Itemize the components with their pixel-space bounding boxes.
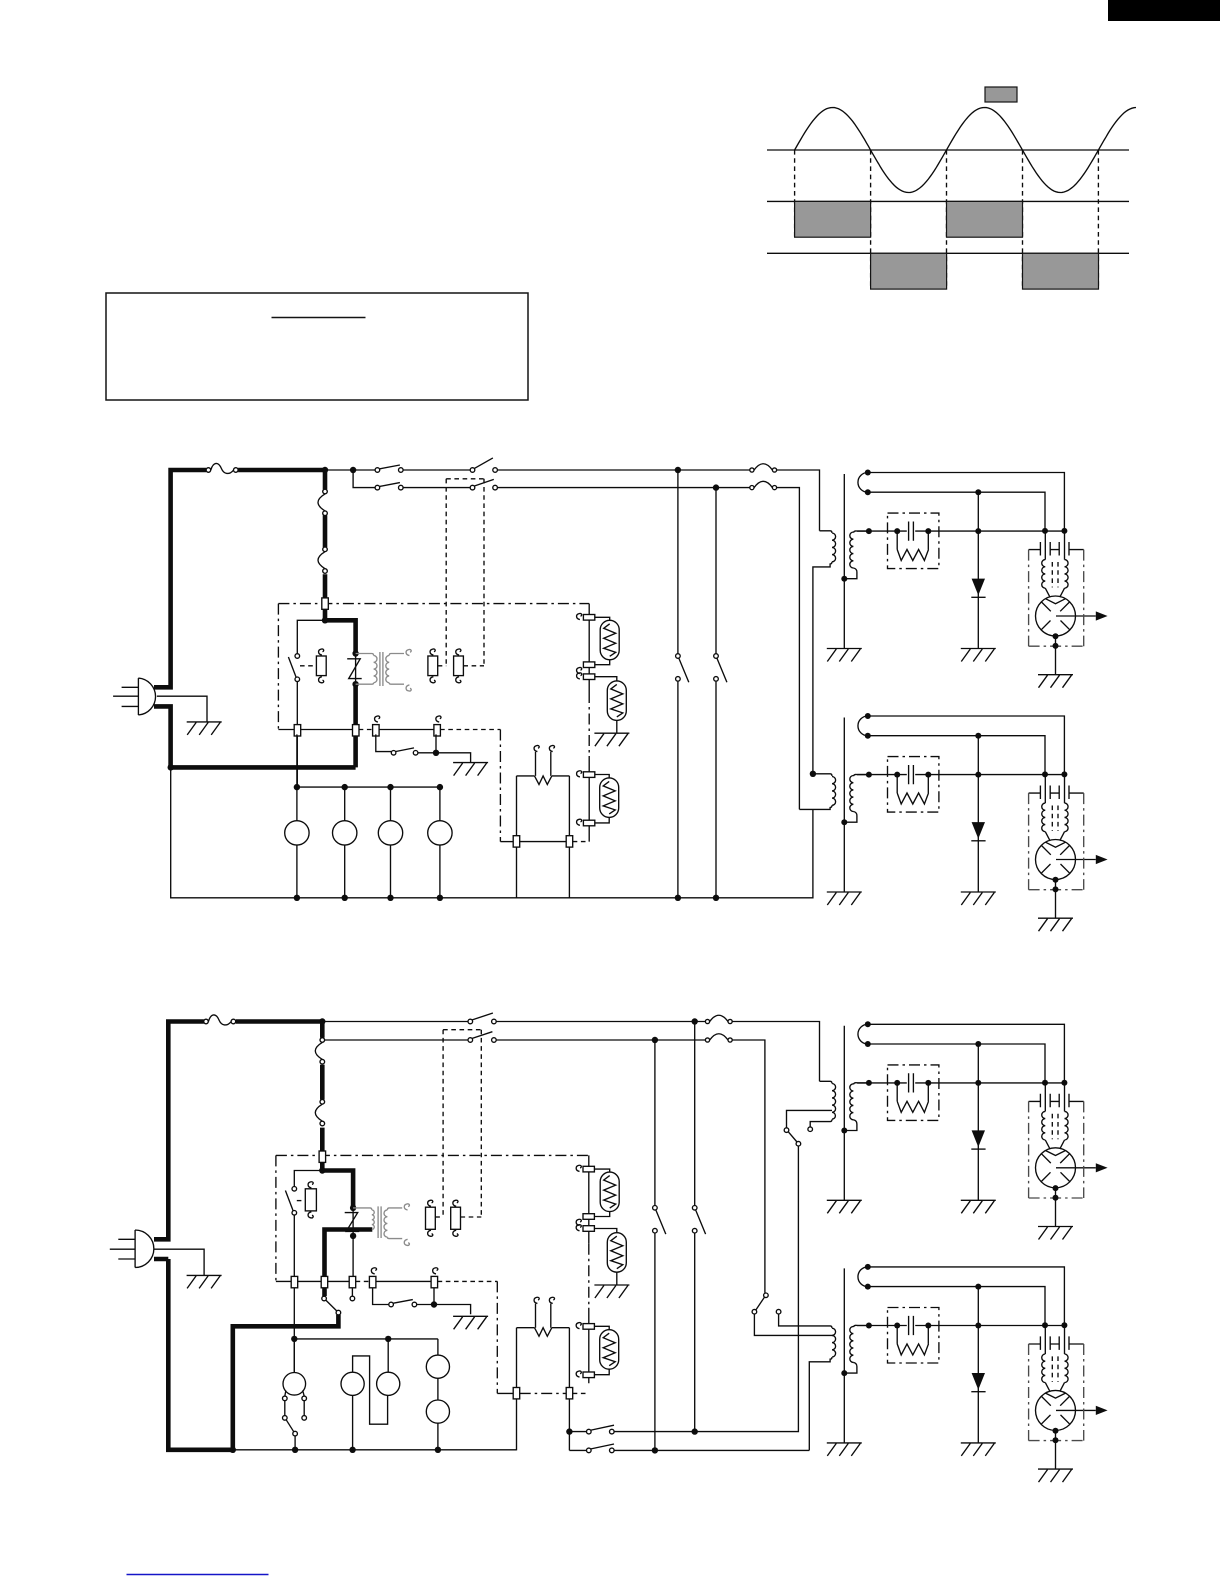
wire: plug earth pin — [154, 1249, 204, 1275]
wire: membrane switch branch — [376, 734, 471, 762]
wire: neutral bottom rail thick — [154, 1259, 233, 1450]
control box boundary dash-dot — [278, 604, 589, 730]
switch: door interlock rail1 (open) — [470, 468, 475, 473]
wire: motor bus — [294, 1338, 438, 1340]
thermal fuse rail2 — [750, 481, 777, 489]
wire: lamp feed column A — [677, 470, 679, 898]
motor M2 — [333, 821, 357, 845]
lamp L2 — [607, 1233, 626, 1273]
ground: membrane circuit — [453, 1316, 488, 1329]
motor M2 and M3 series link — [353, 1339, 389, 1450]
lamp L3 leads — [594, 1326, 609, 1374]
ground: oven lamp — [594, 733, 629, 746]
relay boundary dashed box — [446, 479, 484, 666]
transformer LVT core — [380, 652, 383, 686]
lamp L3 leads — [595, 775, 609, 823]
lamp L3 — [600, 1330, 619, 1370]
wire: select relay pole down — [695, 1146, 799, 1432]
switch: lamp B (open) — [714, 654, 719, 659]
motor M4 — [428, 821, 452, 845]
wire: neutral bottom rail — [171, 767, 813, 897]
mechanical link dashed — [297, 1200, 305, 1202]
wire: membrane switch branch — [373, 1288, 471, 1314]
transformer T1 primary — [813, 531, 836, 774]
motor M5 — [426, 1400, 449, 1423]
heater assembly box — [517, 1328, 570, 1388]
dashed link heater to lamp line — [573, 1392, 589, 1394]
AC sine wave — [795, 108, 1136, 193]
lamp L1 leads — [594, 1169, 609, 1216]
heater element W — [535, 1328, 552, 1337]
mechanical link dashed RY3 — [463, 665, 484, 667]
heater branch dash-dot — [496, 1281, 498, 1393]
wire: branch to interlock relay switch — [297, 620, 325, 787]
motor FM1 — [283, 1373, 306, 1396]
switch: lamp A (open) — [653, 1206, 658, 1211]
transformer LVT secondary — [384, 1208, 402, 1239]
transformer LVT primary — [356, 654, 377, 685]
switch: power relay contact (closed) — [322, 1296, 327, 1301]
wire: rail to T4 bottom row — [569, 1449, 809, 1451]
lamp L1 — [600, 1172, 619, 1212]
connector pin on control box top — [319, 1151, 326, 1162]
waveform axis 2 — [767, 200, 1129, 202]
motor M3 — [378, 821, 402, 845]
lamp L3 — [600, 778, 619, 818]
switch: power select relay 1 — [784, 1128, 789, 1133]
transformer T3 primary — [820, 1081, 836, 1119]
thermal fuse rail1 — [705, 1015, 732, 1023]
switch: relay contact rail2 — [375, 485, 380, 490]
transformer LVT primary — [353, 1208, 374, 1230]
switch: lamp A (open) — [676, 654, 681, 659]
transformer T4 tap lead — [754, 1314, 833, 1335]
transformer T3 tap leads — [787, 1110, 833, 1128]
wire: plug earth pin — [157, 696, 207, 722]
heater connector pins — [513, 836, 520, 847]
thermal fuse rail1 — [750, 464, 777, 472]
lamp L2 — [607, 681, 626, 721]
ground: membrane circuit — [453, 763, 488, 776]
wire: heater bottoms to rail — [517, 842, 570, 898]
switch: door interlock rail1 (open) — [468, 1019, 473, 1024]
transformer T4 primary — [779, 1314, 836, 1450]
wire: lamp feed column B — [694, 1022, 696, 1432]
connector row wires — [276, 1280, 431, 1282]
thermal cutout column thick — [323, 470, 328, 620]
control box boundary dash-dot — [276, 1155, 589, 1281]
wire: rail 2 start — [353, 470, 799, 809]
note title underline — [272, 317, 366, 319]
wire: oven lamp feed — [588, 1155, 590, 1383]
lamp L2 leads — [594, 1229, 616, 1285]
motor M2 — [341, 1372, 364, 1395]
wire: lamp feed column B — [715, 488, 717, 898]
heater terminals — [536, 1304, 551, 1328]
HV unit 2 — [827, 713, 1108, 931]
motor M4 M5 stack — [437, 1339, 439, 1450]
switch: start switch — [391, 751, 396, 756]
dashed zero-crossing lines — [794, 150, 796, 237]
pulse rect row3 a — [871, 253, 947, 289]
transformer T2 primary — [799, 774, 835, 810]
wire: live rail thick fuse to cutout node — [236, 1019, 322, 1024]
varistor Z — [345, 1213, 360, 1232]
pulse rect row2 b — [947, 201, 1023, 237]
relay coil RY2 — [426, 1207, 436, 1229]
wire: live rail thick fuse to cutout node — [238, 468, 325, 473]
plug P1 — [113, 678, 155, 715]
wire: plug neutral thick down — [154, 706, 171, 767]
mechanical link dashed RY3 — [461, 1216, 482, 1218]
relay boundary dashed box — [443, 1030, 481, 1217]
lamp L2 leads — [595, 677, 617, 733]
switch: door interlock rail2 (open) — [468, 1038, 473, 1043]
plug P1 — [110, 1230, 154, 1268]
switch: power select relay 2 — [764, 1293, 769, 1298]
heater terminals — [536, 752, 551, 776]
motor M4 — [426, 1355, 449, 1378]
wire: line to heater switch row — [569, 1431, 694, 1433]
relay coil RY1 — [305, 1189, 316, 1211]
motor M1 — [285, 821, 309, 845]
HV unit 3 — [827, 1021, 1108, 1239]
switch: heater select lower — [587, 1448, 592, 1453]
thermal cutout 1 — [318, 489, 327, 515]
pulse rect row3 b — [1023, 253, 1099, 289]
transformer LVT core — [378, 1206, 381, 1238]
hyperlink underline bottom — [127, 1574, 269, 1576]
heater assembly box — [517, 776, 570, 836]
lamp L1 — [600, 620, 619, 660]
wire: thick relay to neutral rail — [233, 1315, 339, 1450]
fuse F1 — [204, 1015, 236, 1025]
connector row wires — [278, 729, 434, 731]
fuse F1 — [206, 463, 238, 473]
pulse rect row2 a — [795, 201, 871, 237]
black page tab top right — [1108, 0, 1220, 21]
wire: motor bus feed — [296, 734, 298, 787]
wire: live rail thick from plug to fuse — [154, 470, 206, 687]
switch: door interlock rail2 (open) — [470, 485, 475, 490]
wire: branch to interlock relay switch — [294, 1171, 322, 1373]
connector pins row — [291, 1276, 298, 1287]
motor M3 — [377, 1372, 400, 1395]
heater connector pins — [513, 1388, 520, 1399]
lamp L1 leads — [595, 617, 610, 664]
dashed link heater to lamp line — [573, 841, 590, 843]
wire: motor bus — [297, 786, 440, 788]
varistor Z — [347, 659, 362, 679]
wire: thick main live to LVT primary top — [322, 1171, 353, 1208]
switch: start switch — [389, 1302, 394, 1307]
switch: power relay contact (open) — [295, 654, 300, 659]
ground: mains earth — [187, 1275, 222, 1288]
note box — [106, 293, 528, 400]
thermal cutout column thick — [320, 1022, 325, 1171]
switch: power relay contact — [292, 1187, 297, 1192]
relay coil RY2 — [428, 656, 438, 676]
relay coil RY3 — [451, 1207, 461, 1229]
wire: rail 1 thin — [322, 1022, 819, 1082]
heater element W — [535, 776, 552, 785]
heater branch dash-dot — [499, 730, 501, 842]
waveform legend gray box — [985, 87, 1017, 102]
mechanical link dashed — [300, 665, 316, 667]
wire: neutral bottom rail thin — [233, 1449, 517, 1451]
lamp connector pins — [583, 1166, 594, 1172]
connector pin on control box top — [322, 598, 329, 609]
wire: rail 2 thin — [322, 1040, 765, 1293]
switch: relay contact rail1 — [375, 468, 380, 473]
motor M1 leads — [297, 787, 440, 898]
wire: varistor branch to relay contact — [351, 1208, 354, 1296]
wire: rail 1 thin — [325, 470, 820, 531]
switch: fan motor select — [283, 1416, 288, 1421]
relay coil RY1 — [316, 656, 326, 676]
thermal cutout 1 — [315, 1038, 324, 1064]
switch: lamp B (open) — [692, 1206, 697, 1211]
wire: thick LVT primary bottom to relay — [325, 1230, 373, 1297]
mechanical link dashed RY2 — [435, 1216, 443, 1218]
wire: heater bottoms — [520, 1392, 567, 1394]
switch: heater select upper — [587, 1429, 592, 1434]
thermal cutout 2 — [318, 547, 327, 573]
ground: oven lamp — [594, 1285, 629, 1298]
waveform axis 3 — [767, 252, 1129, 254]
thermal cutout 2 — [315, 1100, 324, 1126]
wire: oven lamp feed — [588, 604, 590, 842]
thermal fuse rail2 — [705, 1034, 732, 1042]
wire: live rail thick from plug to fuse — [154, 1022, 204, 1240]
connector pins row — [294, 725, 301, 736]
motor FM1 leads and terminals — [285, 1339, 304, 1450]
transformer LVT secondary — [386, 654, 404, 685]
waveform axis 1 — [767, 149, 1129, 151]
mechanical link dashed RY2 — [438, 665, 447, 667]
ground: mains earth — [187, 722, 222, 735]
lamp connector pins — [583, 615, 594, 621]
HV unit 1 — [827, 470, 1108, 688]
wire: thick main live through LV transformer primary — [171, 620, 356, 767]
wire: lamp feed column A — [654, 1040, 656, 1450]
HV unit 4 — [827, 1264, 1108, 1482]
relay coil RY3 — [454, 656, 464, 676]
